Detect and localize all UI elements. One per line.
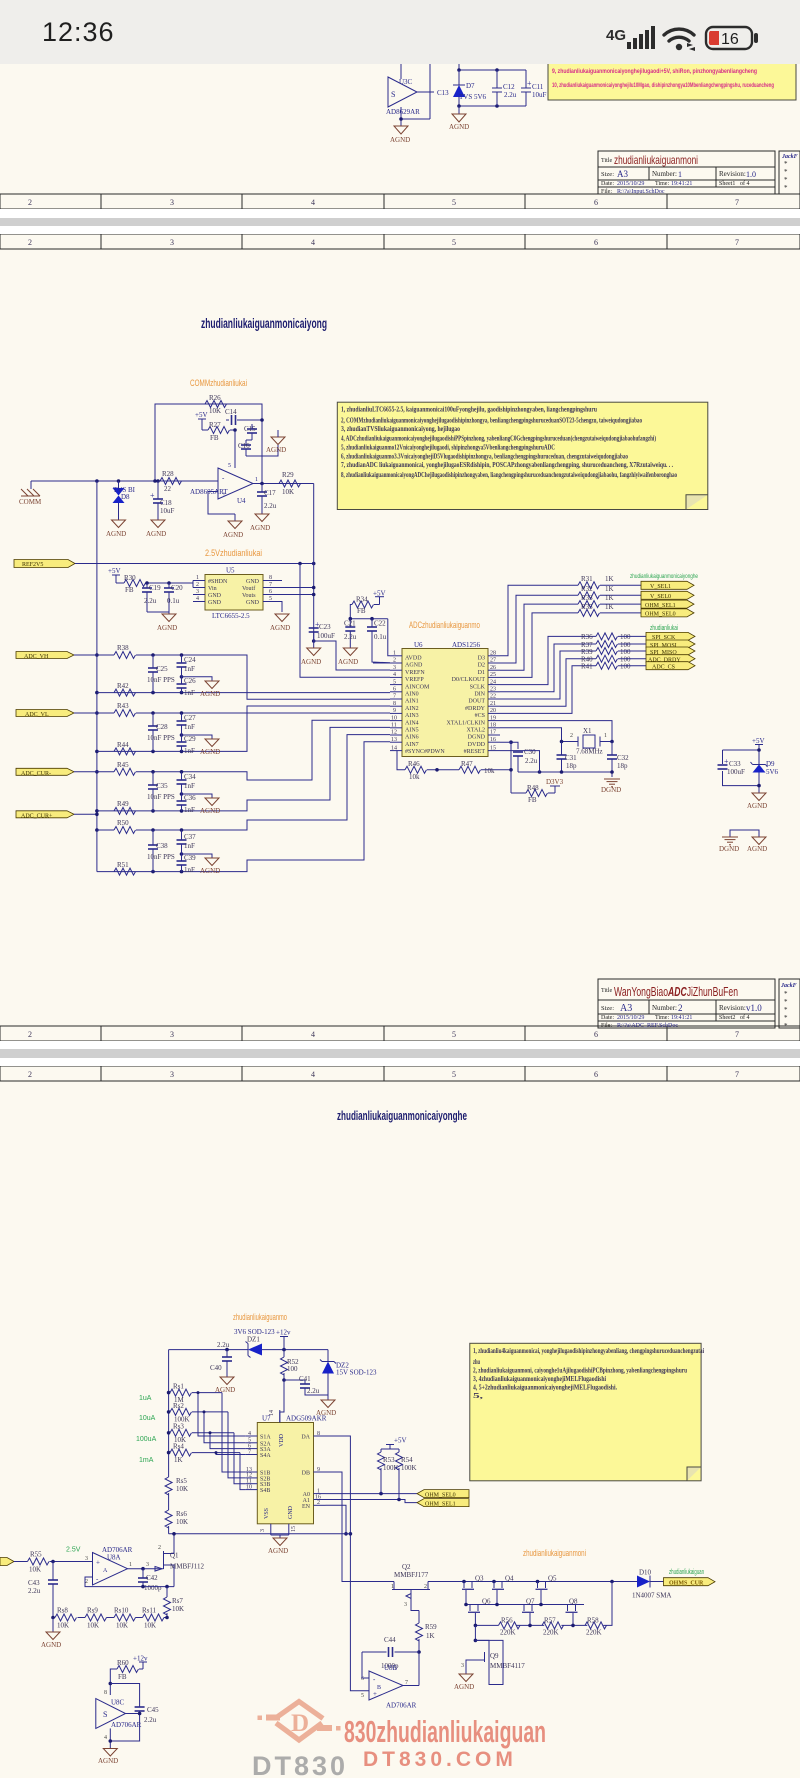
svg-text:ADC_VL: ADC_VL [25,712,49,718]
svg-text:ADC_CS: ADC_CS [652,665,675,671]
resistor R49 [114,807,136,814]
border bar page2 bottom [0,1026,800,1041]
cluster3 wires [136,720,390,780]
capacitor C33 polarized [718,765,728,769]
svg-text:7: 7 [248,1449,251,1455]
transistor Q6 [468,1598,491,1626]
svg-text:11: 11 [391,723,397,729]
C33/D9 loop [723,750,760,793]
svg-text:2.2u: 2.2u [504,91,517,99]
svg-text:Rs10: Rs10 [114,1607,129,1615]
note page3 [470,1343,704,1481]
svg-text:6: 6 [594,198,598,207]
svg-text:Q8: Q8 [569,1598,578,1606]
svg-text:AGND: AGND [268,1547,288,1555]
svg-text:Title: Title [601,988,612,994]
svg-text:AGND: AGND [157,624,177,632]
ground DGND tie [722,837,738,845]
capacitor C16 [245,440,247,445]
ground AGND under U7 [271,1534,289,1536]
port ADC_CUR- [16,768,74,777]
svg-text:#CS: #CS [475,713,485,719]
svg-text:R43: R43 [117,702,129,710]
wire AGND pin2 [373,662,390,664]
loop SYNC R46 R47 [397,751,511,770]
svg-text:R36: R36 [581,633,593,641]
capacitor C42 [142,1569,144,1578]
svg-text:2: 2 [158,1545,161,1551]
op-amp U8B [369,1671,403,1700]
resistor R34 FB [373,590,386,605]
svg-text:OHM_SEL0: OHM_SEL0 [425,1493,456,1499]
capacitor C38 [152,830,154,845]
svg-text:R51: R51 [117,861,129,869]
svg-text:C26: C26 [184,677,196,685]
wire EN to rail [326,1505,347,1534]
wire DA sense down to U8B+ [326,1436,370,1691]
svg-text:DVDD: DVDD [468,742,486,748]
svg-text:C36: C36 [184,794,196,802]
capacitor C44 [362,1647,419,1657]
svg-text:3: 3 [260,1529,266,1532]
svg-text:C25: C25 [156,665,168,673]
svg-text:100: 100 [620,663,631,671]
svg-text:10nF PPS: 10nF PPS [147,793,175,801]
svg-text:10K: 10K [29,1566,41,1574]
ground AGND at Q9 gate [459,1674,473,1682]
svg-text:4: 4 [248,1431,251,1437]
svg-text:AIN2: AIN2 [405,706,419,712]
svg-text:10k: 10k [409,773,420,781]
svg-text:2: 2 [570,733,573,739]
svg-text:D0/CLKOUT: D0/CLKOUT [452,677,486,683]
svg-text:+5V: +5V [195,411,208,419]
svg-text:2: 2 [317,1500,320,1506]
svg-text:AIN0: AIN0 [405,692,419,698]
svg-text:100uA: 100uA [136,1436,157,1443]
svg-text:R27: R27 [209,421,221,429]
svg-text:AGND: AGND [200,867,220,875]
svg-text:4: 4 [311,1070,315,1079]
svg-text:3, 4zhudianliukaiguanmonicaiyo: 3, 4zhudianliukaiguanmonicaiyonghejiMELF… [473,1375,606,1383]
svg-text:C24: C24 [184,656,196,664]
svg-text:6: 6 [594,1070,598,1079]
resistor Rs11 [143,1614,165,1621]
svg-text:1.0: 1.0 [746,170,756,179]
feedback resistor row [53,1617,167,1619]
svg-text:EN: EN [302,1504,311,1510]
svg-text:AGND: AGND [223,531,243,539]
svg-text:B: B [377,1685,381,1691]
svg-text:zhu: zhu [473,1358,480,1366]
svg-text:C11: C11 [532,83,544,91]
svg-text:C27: C27 [184,714,196,722]
svg-text:D1: D1 [478,670,485,676]
svg-text:D2: D2 [478,663,485,669]
svg-text:10: 10 [246,1484,252,1490]
svg-text:AIN1: AIN1 [405,699,419,705]
svg-text:Number:: Number: [652,170,677,178]
svg-text:1: 1 [393,651,396,657]
svg-text:2.2u: 2.2u [144,1716,157,1724]
svg-text:R26: R26 [209,394,221,402]
svg-text:Q9: Q9 [490,1652,499,1660]
resistor R32 [578,592,600,599]
svg-text:AGND: AGND [301,658,321,666]
svg-text:ADC_CUR-: ADC_CUR- [21,771,51,777]
svg-text:4, 5+2zhudianliukaiguanmonicai: 4, 5+2zhudianliukaiguanmonicaiyonghejiME… [473,1384,617,1392]
svg-text:100: 100 [620,633,631,641]
svg-text:5,: 5, [473,1392,483,1400]
svg-text:MMBF4117: MMBF4117 [490,1662,525,1670]
svg-text:2.2u: 2.2u [525,757,538,765]
port OHM_SEL1 [417,1499,469,1508]
svg-text:20: 20 [490,708,496,714]
port V_SEL0 [641,591,694,600]
status icons [0,0,800,64]
transistor Q3 [462,1575,484,1605]
resistor R39 [596,648,618,655]
wires SPI to resistors [500,636,596,684]
svg-text:ADG509AKR: ADG509AKR [286,1415,327,1423]
svg-text:2.2u: 2.2u [307,1387,320,1395]
svg-text:6: 6 [269,589,272,595]
svg-text:COMMzhudianliukai: COMMzhudianliukai [190,378,247,389]
svg-text:ADCzhudianliukaiguanmo: ADCzhudianliukaiguanmo [409,620,480,631]
svg-text:Rs3: Rs3 [173,1423,184,1431]
resistor R48 FB [526,790,548,797]
svg-text:3: 3 [170,198,174,207]
svg-text:U4: U4 [237,497,246,505]
resistor R57 [542,1622,564,1629]
resistor R37 [596,641,618,648]
svg-text:C35: C35 [156,782,168,790]
svg-text:XTAL2: XTAL2 [466,728,485,734]
transistor Q4 [492,1575,514,1605]
svg-text:R33: R33 [581,594,593,602]
svg-text:17: 17 [490,730,496,736]
capacitor C26 [177,684,187,688]
wire DB down to Q2 [326,1472,395,1582]
svg-text:A: A [103,1568,108,1574]
svg-text:C42: C42 [146,1574,158,1582]
svg-text:Q4: Q4 [505,1575,514,1583]
ground AGND cluster1 [182,677,213,681]
resistor R33 [578,601,600,608]
resistor R30 FB [116,582,124,584]
TVS diode D7 [453,70,487,106]
wire A0 to port [326,1493,418,1495]
port input left (cut) [0,1558,14,1566]
svg-text:C23: C23 [319,623,331,631]
svg-text:4: 4 [311,198,315,207]
svg-text:C30: C30 [524,748,536,756]
svg-text:19: 19 [490,715,496,721]
svg-text:1uA: 1uA [139,1395,152,1402]
svg-text:Revision:: Revision: [719,1004,746,1012]
crystal X1 [562,727,613,756]
svg-text:3: 3 [170,1030,174,1039]
svg-text:#DRDY: #DRDY [465,706,486,712]
svg-text:1K: 1K [605,585,614,593]
cluster1 wires [136,655,390,699]
svg-text:10uF: 10uF [532,91,547,99]
capacitor C15 [251,424,253,429]
port SPI_MOSI [646,640,695,649]
svg-text:Rs9: Rs9 [87,1607,98,1615]
port V_SEL1 [641,581,694,590]
ground AGND under C23 [307,648,321,656]
svg-text:10uA: 10uA [139,1415,156,1422]
wires caps to ground [246,440,278,456]
svg-text:220K: 220K [586,1629,602,1637]
wires U5 outputs to node [275,581,314,613]
wires Rs to U7 A-pins [192,1393,245,1436]
svg-text:3: 3 [170,1070,174,1079]
svg-text:C41: C41 [299,1375,311,1383]
svg-text:2.2u: 2.2u [28,1587,41,1595]
svg-text:DGND: DGND [719,845,739,853]
capacitor C32 [611,742,613,756]
svg-text:10, zhudianliukaiguanmonicaiyo: 10, zhudianliukaiguanmonicaiyonghejilu10… [552,82,774,89]
capacitor C18 polarized [150,481,175,520]
svg-text:Q6: Q6 [482,1598,491,1606]
svg-text:R:\?a\ADC_REF.SchDoc: R:\?a\ADC_REF.SchDoc [617,1023,678,1029]
status bar [0,0,800,64]
ground AGND under U3C [390,126,410,144]
resistor R50 [114,827,136,834]
U8B input wires [362,1652,369,1678]
ground AGND cluster3 [182,794,213,798]
svg-text:2.2u: 2.2u [217,1341,230,1349]
svg-text:1nF: 1nF [184,665,195,673]
separator 2 [0,1041,800,1049]
ground AGND under DZ2 [327,1395,329,1400]
svg-text:AGND: AGND [146,530,166,538]
svg-text:R59: R59 [425,1623,437,1631]
zener DZ1 [234,1328,275,1358]
svg-text:1: 1 [196,575,199,581]
svg-text:25: 25 [490,672,496,678]
svg-text:+12v: +12v [276,1329,291,1337]
svg-text:OHMS_CUR: OHMS_CUR [669,1581,704,1587]
svg-text:R29: R29 [282,471,294,479]
port SPI_SCK [646,632,695,641]
svg-text:1K: 1K [174,1456,183,1464]
svg-text:10K: 10K [282,488,294,496]
svg-text:C13: C13 [437,89,449,97]
svg-text:v1.0: v1.0 [746,1003,762,1013]
port SPI_MISO [646,647,695,656]
svg-text:OHM_SEL1: OHM_SEL1 [645,603,676,609]
resistor Rs4 [170,1449,192,1456]
svg-text:10K: 10K [176,1518,188,1526]
resistor R47 [459,766,481,773]
svg-text:16: 16 [490,737,496,743]
title block page2 [598,979,800,1030]
svg-text:10nF PPS: 10nF PPS [147,676,175,684]
svg-text:4, ADCzhudianliukaiguanmonicai: 4, ADCzhudianliukaiguanmonicaiyonghejilu… [341,433,656,442]
svg-text:6: 6 [594,1030,598,1039]
svg-text:S4A: S4A [260,1453,271,1459]
svg-text:14: 14 [391,745,397,751]
left current-set bus [168,1350,170,1477]
transistor Q1 MMBFJ112 [146,1534,204,1587]
capacitor C17 [261,484,263,493]
resistor R44 [114,748,136,755]
op-amp U8C [96,1699,126,1729]
svg-text:10K: 10K [209,407,221,415]
port REF2V5 [14,560,75,569]
top rail [459,69,526,71]
svg-text:Sheet1: Sheet1 [719,181,735,187]
svg-text:C32: C32 [617,754,629,762]
border bar page3 top [0,1066,800,1081]
svg-text:1K: 1K [605,575,614,583]
border bar page2 top [0,234,800,249]
svg-text:2: 2 [28,1030,32,1039]
svg-text:3: 3 [85,1556,88,1562]
svg-text:C31: C31 [565,754,577,762]
svg-text:ADS1256: ADS1256 [452,641,481,649]
wire from C23 node to VREFN [314,641,390,670]
capacitor C35 [152,772,154,785]
svg-text:9, zhudianliukaiguanmonicaiyon: 9, zhudianliukaiguanmonicaiyonghejilugao… [552,68,757,75]
svg-text:U5: U5 [226,567,235,575]
port ADC_CS [646,662,695,671]
svg-text:1K: 1K [426,1632,435,1640]
ground AGND cluster4 [182,854,213,858]
svg-text:6, zhudianliukaiguanmo3.3Vnica: 6, zhudianliukaiguanmo3.3VnicaiyonghejiD… [341,451,628,460]
transistor Q7 [522,1598,535,1626]
svg-text:AD706AR: AD706AR [386,1702,417,1710]
capacitor C21 [349,619,351,627]
svg-text:C18: C18 [160,499,172,507]
svg-text:C19: C19 [149,584,161,592]
vertical main 2.5V node [313,484,315,642]
zener DZ2 [320,1350,377,1395]
resistor Rs6 [165,1510,172,1528]
svg-text:AGND: AGND [200,690,220,698]
top rail +12v [169,1349,328,1351]
svg-text:R53: R53 [383,1456,395,1464]
svg-text:Q5: Q5 [548,1575,557,1583]
svg-text:9: 9 [317,1467,320,1473]
svg-text:R57: R57 [544,1617,556,1625]
svg-text:3: 3 [461,1663,464,1669]
svg-text:3: 3 [196,589,199,595]
power +5V right [752,737,765,750]
svg-text:FB: FB [528,796,537,804]
svg-text:1: 1 [678,170,682,179]
svg-text:2.2u: 2.2u [264,502,277,510]
svg-text:AGND: AGND [98,1757,118,1765]
svg-text:Sheet2: Sheet2 [719,1015,735,1021]
svg-text:zhudianliukaiguanmo: zhudianliukaiguanmo [233,1312,287,1322]
capacitor C14 [226,415,262,425]
svg-text:Number:: Number: [652,1004,677,1012]
wire to agnd [147,612,169,614]
resistor R59 [418,1611,420,1624]
svg-text:D3V3: D3V3 [546,778,564,786]
svg-text:2: 2 [393,658,396,664]
resistor R29 [279,480,301,487]
svg-text:C20: C20 [171,584,183,592]
transistor Q5 [536,1575,558,1605]
svg-text:1, zhudianliuLTC6655-2.5, kaig: 1, zhudianliuLTC6655-2.5, kaiguanmonicai… [341,405,598,414]
power +12v U8C [133,1655,148,1670]
capacitor C41 [284,1380,305,1384]
svg-text:10K: 10K [116,1622,128,1630]
svg-text:10k: 10k [484,767,495,775]
port ADC_VH [16,652,74,661]
ground AGND under C18 [151,520,165,528]
svg-text:C17: C17 [264,489,276,497]
resistor Rs1 [170,1389,192,1396]
svg-text:AGND: AGND [41,1641,61,1649]
svg-text:0.1u: 0.1u [374,633,387,641]
svg-text:1nF: 1nF [184,747,195,755]
svg-text:R50: R50 [117,819,129,827]
capacitor C11 polarized [521,70,547,106]
svg-text:V_SEL1: V_SEL1 [650,584,671,590]
svg-text:2: 2 [196,582,199,588]
svg-text:Rs8: Rs8 [57,1607,68,1615]
svg-text:C45: C45 [147,1706,159,1714]
output wire to Q1 [128,1568,163,1570]
svg-text:AGND: AGND [454,1683,474,1691]
output wire [253,483,314,485]
svg-text:7: 7 [735,198,739,207]
svg-text:ADC_CUR+: ADC_CUR+ [21,814,53,820]
svg-text:FB: FB [118,1673,127,1681]
wire minus input to ground [208,492,235,515]
svg-text:+5V: +5V [108,567,121,575]
TVS diode D8 [113,481,136,520]
bottom rail [459,105,526,107]
svg-text:3: 3 [146,1562,149,1568]
resistor R31 [578,582,600,589]
svg-text:Q1: Q1 [170,1552,179,1560]
svg-text:10nF PPS: 10nF PPS [147,853,175,861]
svg-text:*: * [784,990,788,998]
svg-text:C21: C21 [344,620,356,628]
svg-text:2.2u: 2.2u [344,633,357,641]
svg-text:C22: C22 [374,620,386,628]
svg-text:4G: 4G [606,27,626,44]
svg-text:220K: 220K [543,1629,559,1637]
svg-text:Q2: Q2 [402,1563,411,1571]
svg-text:10K: 10K [144,1622,156,1630]
svg-text:C40: C40 [210,1364,222,1372]
svg-text:VSS: VSS [264,1508,270,1519]
port OHM_SEL0 [641,609,694,618]
svg-text:AGND: AGND [270,624,290,632]
wire RESET to xtal bottom [500,751,540,772]
svg-text:Size:: Size: [601,171,614,178]
ground AGND under D7 [449,106,469,131]
zener D9 [751,760,779,776]
svg-text:COMM: COMM [19,498,42,506]
svg-text:R44: R44 [117,741,129,749]
svg-text:S: S [103,1710,107,1719]
svg-text:Q7: Q7 [526,1598,535,1606]
IC U5 LTC6655 [193,567,275,621]
svg-text:File:: File: [601,1023,612,1029]
svg-text:ADC_VH: ADC_VH [24,654,49,660]
svg-text:AGND: AGND [390,136,410,144]
svg-text:VDD: VDD [279,1433,285,1447]
